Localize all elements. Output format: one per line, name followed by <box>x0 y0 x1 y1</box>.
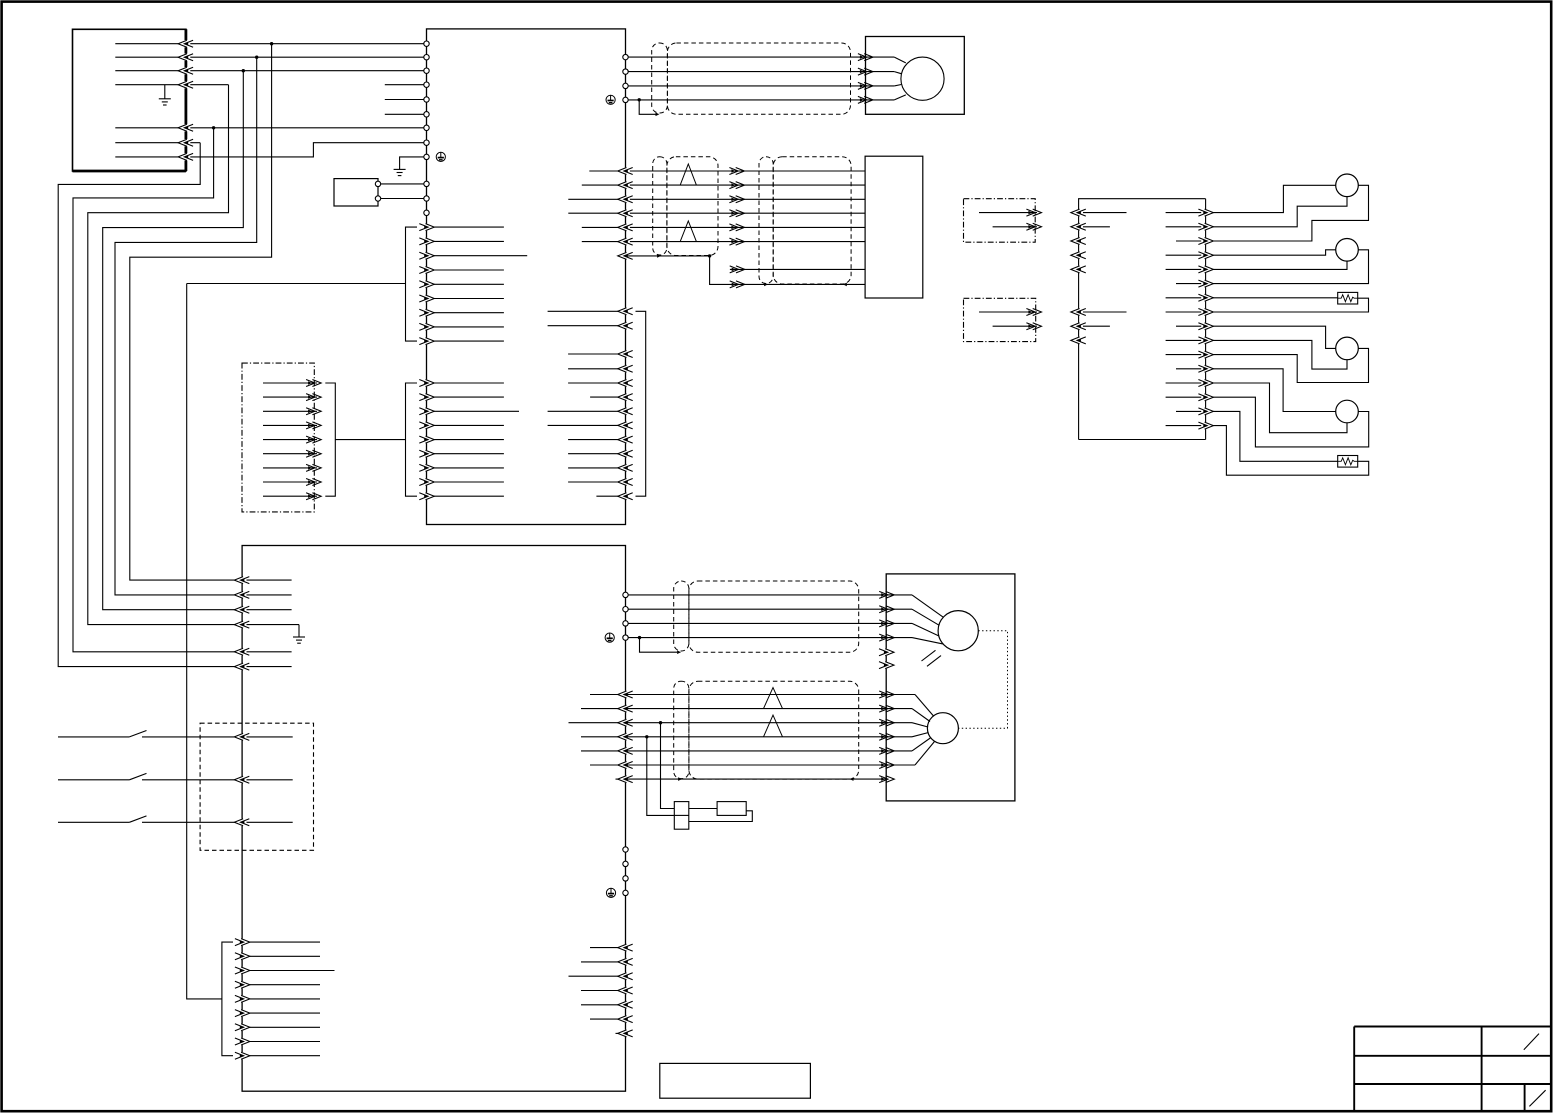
wire K1 pin1 to A1 pin1 <box>115 43 426 45</box>
lamp H3 <box>1336 337 1359 360</box>
ground at K3 row4 <box>298 625 300 637</box>
wires K3 to M3 <box>626 694 887 696</box>
lamp H2 wiring <box>1206 250 1336 255</box>
twisted pair symbol 2 <box>680 221 696 242</box>
shield outline cable W1 <box>667 43 850 114</box>
bundle line bracket3 to bracket2 <box>335 439 405 441</box>
shield capsule cable W1 <box>652 43 668 113</box>
twisted pair symbol 4 <box>764 715 783 737</box>
stub A1 pin6 <box>385 113 424 115</box>
lamp H4 <box>1336 400 1359 423</box>
unit A2 box <box>865 156 923 298</box>
M2 brush marks <box>927 656 941 667</box>
capacitor block <box>717 802 746 816</box>
resistor R1 <box>1338 292 1358 304</box>
resistor R2 wiring <box>1206 411 1338 461</box>
wire K1 pin7 to A1 pin8 <box>115 143 426 157</box>
harness drop wire 2 <box>115 57 257 595</box>
spare wire into A2 <box>730 268 865 270</box>
terminal box X5 <box>660 1063 811 1098</box>
harness drop wire 4 <box>88 85 242 625</box>
plug X3 dash-dot box <box>964 298 1036 341</box>
wire K1 pin2 to A1 pin2 <box>115 56 426 58</box>
M1 motor box <box>866 37 965 115</box>
wire K1 pin5 to A1 pin7 <box>115 127 426 129</box>
M2 motor circle <box>938 611 978 651</box>
A1 left chevron group 2 lines <box>427 382 504 384</box>
shield outline cable W5 <box>689 681 859 779</box>
title block slash mark bottom <box>1529 1090 1545 1106</box>
title block table <box>1354 1026 1551 1028</box>
wires K3 to M2 <box>628 594 912 596</box>
cable bracket 3 <box>325 383 335 496</box>
PE symbol inside A1 <box>436 152 445 161</box>
M2 motor box <box>886 574 1015 801</box>
wires into M3 <box>886 694 915 696</box>
cable bracket 1 <box>406 227 418 341</box>
connector chevrons at K1 edge <box>179 40 191 47</box>
lamp H1 <box>1336 174 1359 197</box>
harness drop wire 3 <box>103 71 244 610</box>
A1 right pins to M1 <box>623 54 628 59</box>
K3 right pins to M2 <box>623 592 628 597</box>
harness line to bracket 1 <box>187 283 406 285</box>
shield outline cable W4 <box>689 581 859 652</box>
B1 pins <box>375 181 380 186</box>
shield capsule cable W4 left <box>674 581 689 651</box>
wire K1 pin6 <box>115 142 200 144</box>
fuse F1 block <box>674 802 689 830</box>
shield outline cable W2 <box>667 157 718 256</box>
wire K1 pin3 to A1 pin3 <box>115 70 426 72</box>
stub A1 pin4 <box>385 84 424 86</box>
wire B1 to A1 pin11 <box>381 198 424 200</box>
harness drop wire 1 <box>130 44 272 580</box>
M3 motor circle <box>927 713 958 744</box>
unit K1 box <box>73 29 186 171</box>
wire K1 pin4 <box>115 84 228 86</box>
unit K3 box <box>242 546 625 1092</box>
lamp H1 wiring <box>1206 185 1336 212</box>
left rail stubs and chevrons <box>1079 212 1127 214</box>
resistor R1 wiring <box>1206 297 1338 299</box>
wire B1 to A1 pin10 <box>381 183 424 185</box>
A2 cable rows <box>589 170 625 172</box>
A1 left chevron group 1 lines <box>427 226 504 228</box>
shield capsule cable W2 left <box>653 157 667 255</box>
X1 wires with arrows <box>263 382 317 384</box>
shield capsule cable W5 left <box>674 681 689 778</box>
W4 shield drain <box>640 638 678 653</box>
switches S1-S3 <box>58 736 129 738</box>
ground at A1 pin9 <box>400 157 424 170</box>
K3 left rows inside stubs <box>242 579 292 581</box>
twisted pair symbol 3 <box>764 688 783 709</box>
resistor R2 <box>1338 456 1358 468</box>
plug X2 dash-dot box <box>964 199 1036 243</box>
right rail stubs <box>1166 212 1206 214</box>
M1 motor circle <box>901 57 944 100</box>
W1 shield drain <box>639 100 655 115</box>
PE symbol at A1 right pins <box>606 95 615 104</box>
W5 shield drain <box>626 778 887 780</box>
plug X1 dash-dot box <box>242 363 314 512</box>
ground inside K1 <box>164 85 166 99</box>
cable bracket 5 <box>222 942 233 1056</box>
harness drop wire 6 <box>58 143 242 667</box>
stub A1 pin5 <box>385 99 424 101</box>
unit B1 small box <box>334 179 378 206</box>
suppressor link wires <box>689 808 717 810</box>
coupling dotted link M2-M3 <box>958 631 1007 729</box>
K3 bottom-left chevron rows <box>242 941 320 943</box>
K3 rows to M3 inside stubs <box>590 694 626 696</box>
M2 spare chevrons <box>882 649 894 656</box>
shield outline cable W3 <box>773 157 851 284</box>
A1 left edge pins <box>424 41 429 46</box>
unit A1 box <box>427 29 626 525</box>
shield capsule cable W3 left <box>759 157 773 284</box>
title block slash mark top <box>1524 1034 1539 1050</box>
cable bracket 4 <box>636 311 646 496</box>
plug X4 dashed box <box>200 723 313 850</box>
K3 spare rows group F <box>590 947 626 949</box>
harness drop wire 5 <box>73 128 242 652</box>
A1 right edge spare rows <box>548 310 626 312</box>
X2 wires <box>979 212 1037 214</box>
cable bracket 2 <box>406 383 418 496</box>
K3 spare pins group E <box>623 847 628 852</box>
suppressor wiring <box>661 723 675 809</box>
harness rail box right <box>1079 199 1206 440</box>
PE at spare pins <box>606 888 615 897</box>
long harness wire <box>187 284 222 999</box>
lamp H3 wiring <box>1206 326 1336 348</box>
twisted pair symbol 1 <box>680 164 696 185</box>
W2/W3 shield drain wire <box>626 256 866 285</box>
right rail chevrons <box>1201 209 1213 216</box>
X3 wires <box>979 311 1037 313</box>
PE at K3 pins <box>605 633 614 642</box>
lamp H2 <box>1336 239 1359 262</box>
wires A1 to M1 <box>628 56 894 58</box>
lamp H4 wiring <box>1206 369 1336 412</box>
